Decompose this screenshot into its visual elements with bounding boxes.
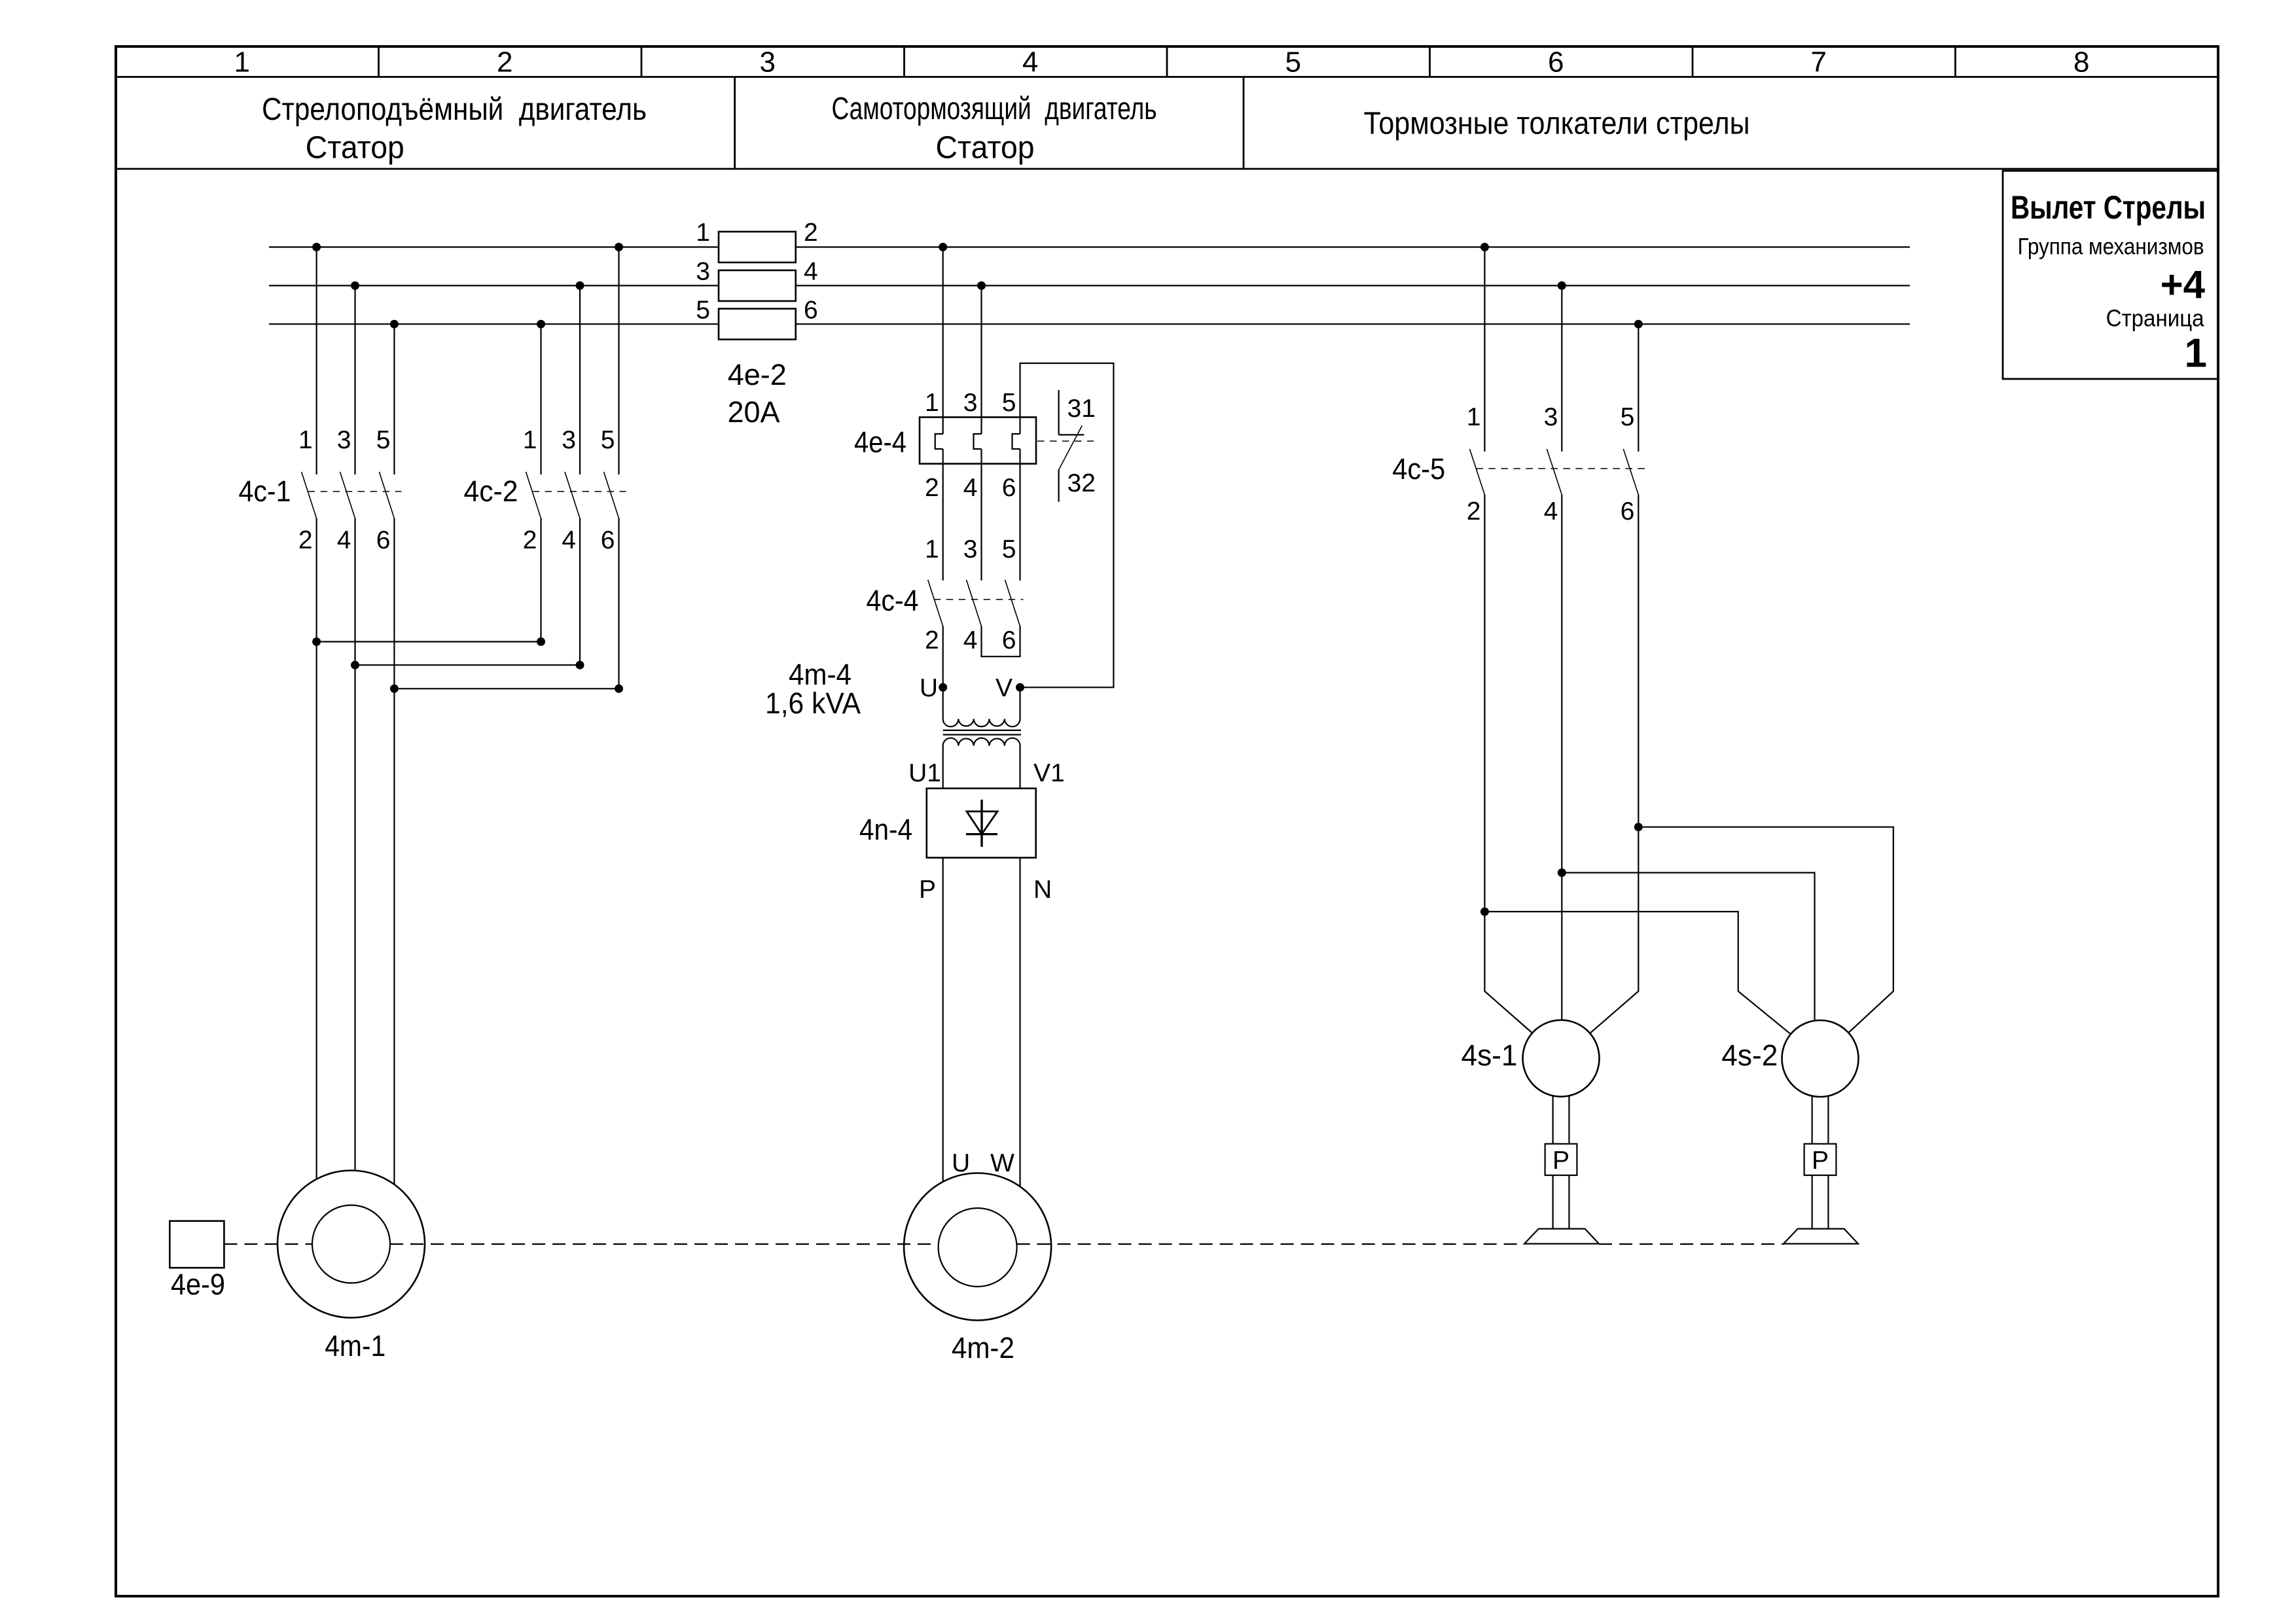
- wire rectifier P to motor 4m-2 U: [942, 858, 944, 1182]
- auxiliary contact 31-32 of 4e-4 (NC trip contact): [1059, 390, 1085, 502]
- wire node V to transformer primary: [1019, 687, 1020, 719]
- rectifier 4n-4: [927, 789, 1036, 858]
- wire bus L3 to 4c-1 pin 5: [393, 324, 395, 474]
- junction 4c-1:4 tie: [351, 661, 359, 669]
- junction 4c-1:2 tie: [312, 637, 321, 646]
- junction 4c-2:4 tie: [576, 661, 584, 669]
- wire 4e-4 pin 4 to 4c-4 pin 3: [980, 449, 982, 580]
- tie wire 4c-1:4 to 4c-2:4: [355, 664, 581, 666]
- node U (junction dot): [939, 683, 947, 692]
- svg-text:5: 5: [696, 296, 710, 325]
- junction bus L2 / 4c-1: [351, 281, 359, 290]
- svg-text:Вылет Стрелы: Вылет Стрелы: [2011, 189, 2206, 226]
- motor 4m-1 (hoist motor stator): [278, 1171, 425, 1318]
- svg-text:1: 1: [925, 535, 939, 563]
- junction bus L3 / 4c-1: [390, 320, 399, 329]
- svg-text:P: P: [919, 876, 936, 904]
- svg-text:4: 4: [1544, 497, 1558, 526]
- svg-text:Статор: Статор: [936, 131, 1035, 166]
- svg-text:P: P: [1812, 1147, 1829, 1175]
- svg-text:20A: 20A: [727, 395, 780, 429]
- svg-text:4: 4: [963, 626, 978, 654]
- contactor 4c-1 (3-pole NO contacts): [302, 472, 395, 518]
- junction 4c-2:6 tie: [615, 685, 623, 693]
- brake thruster 4s-2: [1782, 1020, 1859, 1244]
- branch wire phase A to thruster 4s-2: [1484, 912, 1791, 1034]
- wire 4c-1 pin 4 to motor 4m-1 V: [354, 518, 355, 1171]
- svg-text:1: 1: [2185, 331, 2207, 376]
- svg-text:5: 5: [1002, 389, 1016, 417]
- transformer 4m-4 primary winding: [943, 719, 1020, 727]
- svg-text:3: 3: [337, 426, 351, 454]
- svg-text:4: 4: [1022, 46, 1038, 79]
- wire bus L2 to 4c-1 pin 3: [354, 285, 355, 474]
- mechanical link 4c-1: [308, 491, 402, 492]
- svg-text:Стрелоподъёмный двигатель: Стрелоподъёмный двигатель: [262, 92, 647, 127]
- svg-text:3: 3: [760, 46, 776, 79]
- svg-text:5: 5: [376, 426, 391, 454]
- svg-text:U: U: [920, 674, 938, 702]
- svg-text:5: 5: [601, 426, 615, 454]
- wire bus L3 to 4c-5 pin 5: [1638, 324, 1639, 452]
- svg-text:V: V: [996, 674, 1013, 702]
- wire 4c-5 pin 4 to thruster 4s-1: [1561, 495, 1562, 1020]
- wire bus L1 to 4c-2 pin 5: [618, 247, 619, 475]
- svg-text:4m-1: 4m-1: [325, 1329, 386, 1363]
- svg-text:5: 5: [1621, 403, 1635, 431]
- wire 4c-1 pin 2 to motor 4m-1 U: [316, 518, 317, 1179]
- svg-text:1,6 kVA: 1,6 kVA: [765, 687, 861, 720]
- svg-text:1: 1: [925, 389, 939, 417]
- wire bracket 4c-4 pin 4 to pin 6: [982, 626, 1020, 657]
- svg-text:4e-4: 4e-4: [854, 425, 906, 459]
- svg-text:2: 2: [497, 46, 512, 79]
- overload relay 4e-4 (thermal elements): [920, 418, 1036, 464]
- wire bus L3 to 4c-2 pin 1: [540, 324, 541, 474]
- svg-text:1: 1: [298, 426, 313, 454]
- tie wire 4c-1:2 to 4c-2:2: [317, 641, 541, 642]
- svg-text:4m-2: 4m-2: [952, 1331, 1014, 1364]
- svg-text:1: 1: [696, 219, 710, 247]
- junction bus L2 / 4e-4: [977, 281, 986, 290]
- svg-text:2: 2: [925, 626, 939, 654]
- wire bus L2 to 4e-4 pin 3: [980, 285, 982, 434]
- svg-text:7: 7: [1811, 46, 1827, 79]
- svg-text:4c-2: 4c-2: [464, 474, 518, 508]
- junction bus L2 / 4c-2: [576, 281, 584, 290]
- contactor 4c-2 (3-pole NO contacts): [526, 472, 619, 518]
- svg-text:1: 1: [523, 426, 537, 454]
- svg-text:4: 4: [337, 526, 351, 554]
- svg-text:3: 3: [696, 258, 710, 286]
- svg-text:4n-4: 4n-4: [859, 813, 912, 846]
- junction bus L1 / 4e-4: [939, 243, 947, 251]
- svg-text:P: P: [1552, 1147, 1570, 1175]
- svg-text:6: 6: [601, 526, 615, 554]
- svg-text:V1: V1: [1033, 759, 1065, 787]
- junction 4c-2:2 tie: [537, 637, 545, 646]
- svg-text:6: 6: [1002, 626, 1016, 654]
- bus L1: [269, 246, 1910, 247]
- svg-text:N: N: [1033, 876, 1052, 904]
- svg-text:6: 6: [1002, 474, 1016, 502]
- wire 4c-2 pin 4 drop: [579, 518, 581, 665]
- contactor 4c-4 (3-pole NO contacts): [928, 580, 1020, 626]
- svg-text:W: W: [990, 1149, 1014, 1177]
- svg-text:2: 2: [298, 526, 313, 554]
- junction bus L1 / 4c-5: [1480, 243, 1489, 251]
- svg-text:3: 3: [963, 535, 978, 563]
- svg-text:4: 4: [963, 474, 978, 502]
- svg-text:4c-1: 4c-1: [239, 474, 291, 508]
- node V (junction dot): [1016, 683, 1024, 692]
- branch wire phase B to thruster 4s-2: [1562, 873, 1814, 1021]
- wire 4c-2 pin 6 drop: [618, 518, 619, 688]
- svg-text:Страница: Страница: [2106, 305, 2205, 332]
- bus L3: [269, 323, 1910, 325]
- brake thruster 4s-1: [1523, 1020, 1600, 1244]
- svg-text:8: 8: [2073, 46, 2089, 79]
- svg-text:2: 2: [523, 526, 537, 554]
- junction bus L1 / 4c-1: [312, 243, 321, 251]
- motor 4m-2 (self-braking motor stator): [904, 1173, 1051, 1321]
- wire 4c-1 pin 6 to motor 4m-1 W: [393, 518, 395, 1185]
- svg-text:2: 2: [925, 474, 939, 502]
- junction 4c-5:4 branch: [1558, 868, 1566, 877]
- switch 4e-9 (shaft-driven device): [170, 1221, 224, 1268]
- svg-text:6: 6: [804, 296, 818, 325]
- svg-text:2: 2: [804, 219, 818, 247]
- wire bus L2 to 4c-2 pin 3: [579, 285, 581, 474]
- mechanical shaft linkage (dashed) 4m-1 to 4m-2: [390, 1243, 939, 1245]
- svg-text:4s-2: 4s-2: [1721, 1039, 1778, 1072]
- svg-text:4: 4: [804, 258, 818, 286]
- svg-text:6: 6: [376, 526, 391, 554]
- svg-text:1: 1: [1467, 403, 1481, 431]
- fuse 4e-2 (three fuse links in buses): [719, 232, 796, 340]
- svg-text:4c-4: 4c-4: [867, 584, 919, 617]
- svg-text:+4: +4: [2161, 263, 2206, 307]
- tie wire 4c-1:6 to 4c-2:6: [394, 688, 619, 689]
- wire 4c-4 pin 2 to node U: [942, 626, 944, 719]
- svg-text:1: 1: [234, 46, 250, 79]
- junction 4c-5:2 branch: [1480, 908, 1489, 916]
- svg-text:Статор: Статор: [306, 131, 404, 166]
- svg-text:4e-9: 4e-9: [171, 1268, 225, 1301]
- svg-text:6: 6: [1621, 497, 1635, 526]
- wire bus L1 to 4c-1 pin 1: [316, 247, 317, 475]
- mechanical link 4c-2: [533, 491, 626, 492]
- mechanical link 4c-4: [934, 599, 1024, 600]
- mechanical link 4c-5: [1476, 468, 1645, 469]
- wire bus L1 to 4e-4 pin 1: [942, 247, 944, 435]
- junction bus L3 / 4c-2: [537, 320, 545, 329]
- wire bus L2 to 4c-5 pin 3: [1561, 285, 1562, 452]
- mechanical shaft linkage (dashed) 4m-2 to 4s-1: [1017, 1243, 1524, 1245]
- junction bus L3 / 4c-5: [1634, 320, 1643, 329]
- svg-text:5: 5: [1002, 535, 1016, 563]
- svg-text:3: 3: [562, 426, 576, 454]
- svg-text:Тормозные толкатели стрелы: Тормозные толкатели стрелы: [1364, 107, 1750, 141]
- wire 4e-4 pin 6 to 4c-4 pin 5: [1019, 449, 1020, 580]
- transformer 4m-4 secondary winding: [943, 738, 1020, 746]
- svg-text:3: 3: [1544, 403, 1558, 431]
- wire 4c-2 pin 2 drop: [540, 518, 541, 642]
- svg-text:4s-1: 4s-1: [1462, 1039, 1518, 1072]
- junction bus L1 / 4c-2: [615, 243, 623, 251]
- svg-text:4: 4: [562, 526, 576, 554]
- junction 4c-5:6 branch: [1634, 823, 1643, 831]
- svg-text:6: 6: [1548, 46, 1564, 79]
- wire 4e-4 pin 2 to 4c-4 pin 1: [942, 449, 944, 580]
- svg-text:31: 31: [1067, 395, 1096, 423]
- svg-text:2: 2: [1467, 497, 1481, 526]
- svg-text:4c-5: 4c-5: [1392, 452, 1445, 486]
- contactor 4c-5 (3-pole NO contacts): [1469, 449, 1638, 495]
- wire bus L1 to 4c-5 pin 1: [1484, 247, 1485, 452]
- mechanical link 4e-4 trip: [1037, 440, 1094, 442]
- mechanical shaft linkage (dashed) 4s-1 to 4s-2: [1599, 1243, 1784, 1245]
- wire 4c-5 pin 6 to thruster 4s-1: [1590, 495, 1638, 1033]
- svg-text:Группа механизмов: Группа механизмов: [2018, 234, 2204, 260]
- junction 4c-1:6 tie: [390, 685, 399, 693]
- mechanical shaft linkage (dashed) 4e-9 to 4m-1: [224, 1243, 312, 1245]
- svg-text:32: 32: [1067, 469, 1096, 497]
- wire transformer U1 to rectifier: [942, 746, 944, 789]
- wire 4e-4 pin 5 loop to node V: [1020, 363, 1114, 687]
- transformer 4m-4 core: [943, 730, 1021, 735]
- wire rectifier N to motor 4m-2 W: [1019, 858, 1020, 1187]
- svg-text:4e-2: 4e-2: [728, 358, 787, 391]
- bus L2: [269, 285, 1910, 286]
- svg-text:Самотормозящий двигатель: Самотормозящий двигатель: [832, 92, 1157, 126]
- svg-text:5: 5: [1285, 46, 1301, 79]
- wire transformer V1 to rectifier: [1019, 746, 1020, 789]
- svg-text:3: 3: [963, 389, 978, 417]
- wire 4c-5 pin 2 to thruster 4s-1: [1484, 495, 1532, 1033]
- junction bus L2 / 4c-5: [1558, 281, 1566, 290]
- branch wire phase C to thruster 4s-2: [1638, 827, 1893, 1033]
- svg-text:U1: U1: [908, 759, 941, 787]
